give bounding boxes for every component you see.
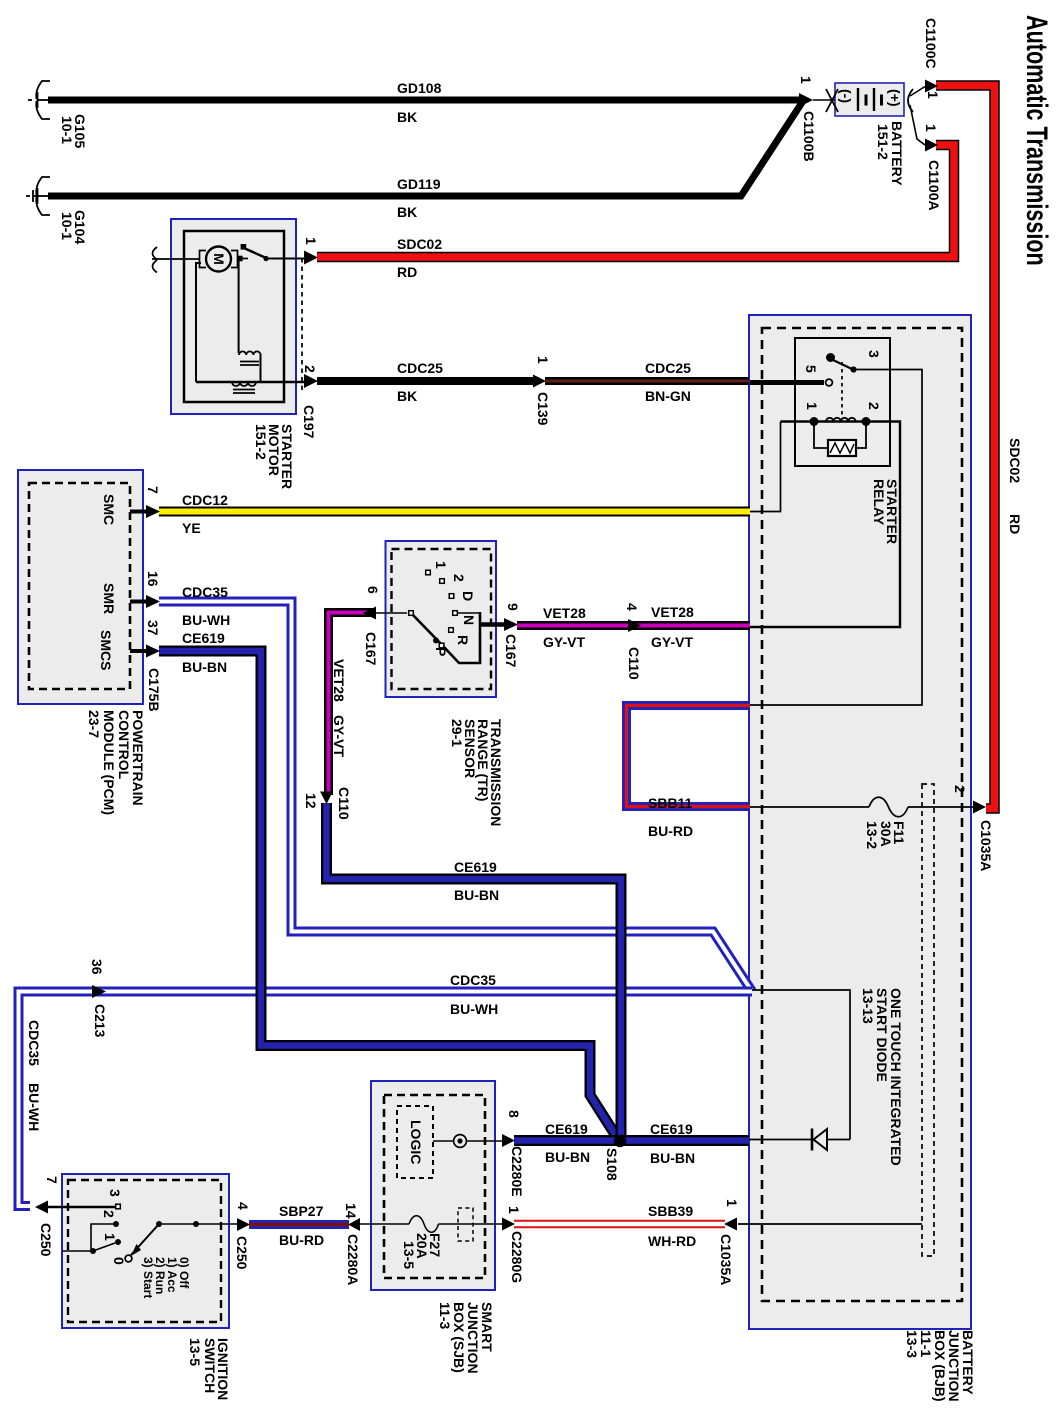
svg-text:C175B: C175B	[146, 668, 162, 712]
svg-text:SWITCH: SWITCH	[202, 1338, 218, 1393]
svg-text:WH-RD: WH-RD	[648, 1233, 696, 1249]
svg-text:1: 1	[804, 402, 820, 410]
svg-text:37: 37	[145, 620, 161, 636]
svg-text:CE619: CE619	[545, 1121, 588, 1137]
svg-text:C167: C167	[363, 632, 379, 666]
svg-text:13-5: 13-5	[187, 1338, 203, 1366]
svg-text:BU-BN: BU-BN	[650, 1150, 695, 1166]
svg-text:C1035A: C1035A	[718, 1234, 734, 1285]
svg-text:GY-VT: GY-VT	[543, 634, 585, 650]
svg-text:M: M	[211, 253, 227, 265]
svg-text:C2280E: C2280E	[509, 1146, 525, 1197]
svg-text:BU-RD: BU-RD	[648, 823, 693, 839]
svg-text:4: 4	[235, 1202, 251, 1210]
svg-text:4: 4	[624, 603, 640, 611]
svg-text:CDC35: CDC35	[26, 1020, 42, 1066]
svg-text:13-5: 13-5	[401, 1241, 417, 1269]
svg-text:Automatic Transmission: Automatic Transmission	[1020, 15, 1054, 266]
svg-text:SBP27: SBP27	[279, 1203, 324, 1219]
svg-text:YE: YE	[182, 520, 201, 536]
svg-text:1: 1	[925, 91, 941, 99]
svg-text:BU-WH: BU-WH	[182, 612, 230, 628]
svg-text:C139: C139	[535, 392, 551, 426]
svg-text:12: 12	[303, 793, 319, 809]
svg-text:S108: S108	[604, 1148, 620, 1181]
svg-text:(+): (+)	[887, 89, 903, 107]
svg-text:1: 1	[724, 1199, 740, 1207]
svg-text:CE619: CE619	[182, 630, 225, 646]
svg-text:C213: C213	[92, 1004, 108, 1038]
svg-text:MODULE (PCM): MODULE (PCM)	[101, 710, 117, 815]
svg-text:CDC35: CDC35	[182, 584, 228, 600]
svg-text:SMCS: SMCS	[98, 630, 114, 670]
svg-text:VET28: VET28	[543, 605, 586, 621]
svg-text:RELAY: RELAY	[871, 479, 887, 526]
svg-text:BU-RD: BU-RD	[279, 1232, 324, 1248]
svg-text:C1100A: C1100A	[926, 160, 942, 211]
svg-text:BU-BN: BU-BN	[454, 887, 499, 903]
svg-text:BN-GN: BN-GN	[645, 388, 691, 404]
svg-text:C1100B: C1100B	[801, 111, 817, 162]
svg-text:RD: RD	[1007, 514, 1023, 534]
svg-text:BU-BN: BU-BN	[182, 659, 227, 675]
svg-text:C1035A: C1035A	[978, 820, 994, 871]
svg-text:7: 7	[44, 1176, 60, 1184]
svg-text:BK: BK	[397, 109, 417, 125]
svg-text:BU-WH: BU-WH	[450, 1001, 498, 1017]
svg-text:SBB39: SBB39	[648, 1203, 693, 1219]
svg-text:CDC12: CDC12	[182, 492, 228, 508]
svg-text:BK: BK	[397, 204, 417, 220]
svg-text:CDC25: CDC25	[397, 360, 443, 376]
svg-text:1: 1	[923, 124, 939, 132]
svg-text:2: 2	[101, 1210, 117, 1218]
svg-text:3: 3	[866, 350, 882, 358]
svg-text:SBB11: SBB11	[648, 795, 693, 811]
svg-text:11-3: 11-3	[437, 1302, 453, 1329]
svg-text:C110: C110	[336, 787, 352, 820]
svg-text:C1100C: C1100C	[923, 18, 939, 69]
svg-text:BU-BN: BU-BN	[545, 1149, 590, 1165]
svg-text:GY-VT: GY-VT	[651, 634, 693, 650]
svg-text:7: 7	[145, 486, 161, 494]
svg-text:GD119: GD119	[397, 176, 441, 192]
svg-text:C2280A: C2280A	[345, 1234, 361, 1285]
svg-text:CDC25: CDC25	[645, 360, 691, 376]
svg-text:2: 2	[952, 785, 968, 793]
svg-text:1: 1	[433, 561, 449, 569]
svg-text:36: 36	[89, 959, 105, 975]
svg-text:CDC35: CDC35	[450, 972, 496, 988]
svg-text:VET28: VET28	[651, 604, 694, 620]
svg-text:151-2: 151-2	[253, 424, 269, 460]
svg-text:C110: C110	[626, 647, 642, 680]
svg-text:P: P	[433, 647, 449, 656]
svg-text:29-1: 29-1	[449, 719, 465, 747]
svg-text:1: 1	[102, 1233, 118, 1241]
svg-text:13-3: 13-3	[904, 1330, 920, 1358]
svg-text:9: 9	[505, 603, 521, 611]
svg-text:RD: RD	[397, 264, 417, 280]
svg-text:SMR: SMR	[101, 583, 117, 614]
svg-text:GD108: GD108	[397, 80, 442, 96]
svg-text:3: 3	[107, 1189, 123, 1197]
svg-text:8: 8	[506, 1110, 522, 1118]
svg-text:14: 14	[343, 1203, 359, 1219]
svg-text:SDC02: SDC02	[1007, 438, 1023, 483]
svg-text:N: N	[461, 615, 477, 625]
svg-text:13-2: 13-2	[864, 821, 880, 849]
svg-text:CE619: CE619	[650, 1121, 693, 1137]
svg-text:1: 1	[535, 356, 551, 364]
svg-text:1: 1	[798, 76, 814, 84]
svg-text:SMC: SMC	[101, 494, 117, 525]
svg-text:CE619: CE619	[454, 859, 497, 875]
svg-text:10-1: 10-1	[59, 212, 75, 240]
svg-text:6: 6	[365, 586, 381, 594]
svg-text:3) Start: 3) Start	[141, 1257, 155, 1298]
svg-text:C2280G: C2280G	[509, 1231, 525, 1283]
svg-text:13-13: 13-13	[860, 988, 876, 1024]
svg-text:1: 1	[303, 237, 319, 245]
svg-text:R: R	[455, 635, 471, 645]
svg-text:10-1: 10-1	[59, 116, 75, 144]
svg-text:VET28: VET28	[331, 659, 347, 702]
svg-text:0: 0	[111, 1257, 127, 1265]
svg-text:C197: C197	[301, 405, 317, 439]
svg-text:GY-VT: GY-VT	[331, 715, 347, 757]
svg-text:5: 5	[803, 365, 819, 373]
svg-text:BK: BK	[397, 388, 417, 404]
svg-text:151-2: 151-2	[875, 124, 891, 160]
svg-text:C250: C250	[38, 1223, 54, 1257]
svg-text:SDC02: SDC02	[397, 236, 442, 252]
svg-text:CONTROL: CONTROL	[116, 710, 132, 780]
svg-text:1: 1	[506, 1206, 522, 1214]
svg-text:2: 2	[451, 574, 467, 582]
svg-text:23-7: 23-7	[86, 710, 102, 738]
svg-text:C250: C250	[234, 1236, 250, 1270]
svg-text:(-): (-)	[838, 89, 854, 103]
svg-text:LOGIC: LOGIC	[408, 1120, 424, 1164]
svg-text:16: 16	[145, 571, 161, 587]
svg-text:D: D	[460, 591, 476, 601]
svg-text:2: 2	[866, 402, 882, 410]
svg-text:C167: C167	[503, 634, 519, 668]
svg-text:BU-WH: BU-WH	[26, 1083, 42, 1131]
svg-text:2: 2	[302, 365, 318, 373]
